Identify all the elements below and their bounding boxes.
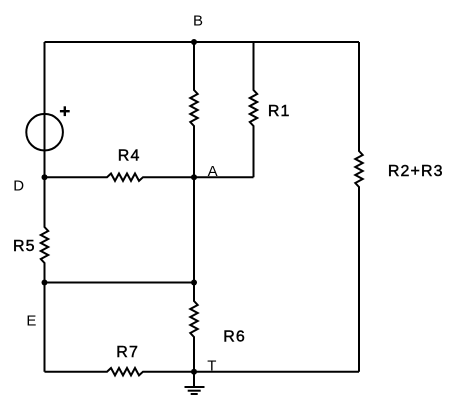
svg-text:R6: R6	[223, 328, 246, 345]
svg-text:R1: R1	[268, 103, 291, 120]
svg-text:B: B	[193, 13, 203, 30]
svg-text:E: E	[26, 312, 36, 329]
svg-text:T: T	[207, 358, 216, 375]
svg-text:R7: R7	[116, 344, 139, 361]
svg-text:R2+R3: R2+R3	[388, 163, 444, 180]
svg-text:R4: R4	[118, 148, 141, 165]
svg-text:A: A	[208, 163, 218, 180]
svg-text:D: D	[13, 178, 24, 195]
svg-text:R5: R5	[13, 238, 36, 255]
